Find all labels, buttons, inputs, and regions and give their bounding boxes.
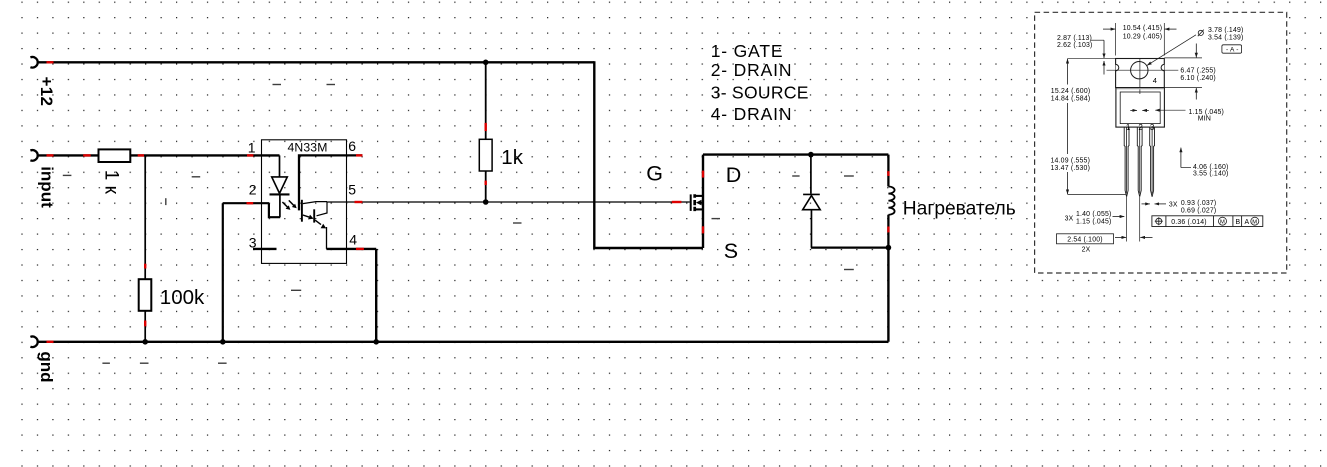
wire diode to heater bottom — [811, 246, 889, 248]
leg 1 — [1124, 127, 1129, 197]
inset texts — [1051, 25, 1258, 253]
svg-text:6.47 (.255): 6.47 (.255) — [1180, 67, 1216, 74]
svg-text:6: 6 — [348, 138, 356, 154]
opto T1 emitter — [303, 215, 309, 217]
wire 100k to gnd rail — [144, 311, 146, 342]
junction dot 1k gate — [483, 199, 489, 205]
tab hole — [1131, 61, 1148, 78]
dim 1.40 arrow — [1113, 216, 1125, 218]
TO220 body — [1116, 88, 1165, 128]
terminal input — [30, 150, 37, 161]
svg-text:100k: 100k — [160, 286, 205, 309]
resistor R2 1k — [479, 139, 492, 171]
opto LED cathode lead — [279, 194, 281, 217]
wire input to R1 — [37, 154, 99, 156]
hole crosshair — [1107, 59, 1179, 94]
svg-text:2: 2 — [1138, 123, 1143, 132]
svg-text:1.40 (.055): 1.40 (.055) — [1076, 211, 1112, 218]
junction dot heater bottom — [886, 245, 892, 251]
opto U1 4N33M box — [262, 140, 347, 264]
wire pin4 to gnd — [326, 249, 376, 342]
wire pin2 to gnd — [223, 203, 269, 342]
svg-text:+12: +12 — [37, 77, 56, 107]
inductor L1 heater top lead — [887, 155, 889, 187]
svg-text:4- DRAIN: 4- DRAIN — [711, 104, 793, 124]
svg-text:3: 3 — [1150, 123, 1155, 132]
svg-text:3- SOURCE: 3- SOURCE — [711, 83, 809, 103]
diode D1 triangle — [803, 196, 821, 210]
svg-text:- A -: - A - — [1226, 46, 1239, 53]
junction dot pin4 gnd — [373, 339, 379, 345]
svg-text:input: input — [38, 166, 57, 208]
svg-text:1 к: 1 к — [101, 170, 122, 195]
dim 1.15 lead width — [1130, 109, 1137, 111]
faint stray dashes — [63, 85, 854, 364]
tab notch left — [1116, 64, 1119, 70]
svg-text:13.47 (.530): 13.47 (.530) — [1051, 165, 1091, 172]
svg-text:2- DRAIN: 2- DRAIN — [711, 60, 793, 80]
wire top rail drop to source — [594, 61, 703, 248]
gdt position symbol — [1156, 218, 1162, 224]
opto light arrow 2 — [289, 200, 294, 205]
TO-220 inset drawing — [1035, 12, 1287, 273]
wire 1k bottom lead — [485, 171, 487, 202]
dim 4.06 leader — [1180, 148, 1182, 168]
svg-text:1: 1 — [1126, 123, 1131, 132]
dim 0.93 arrows — [1142, 203, 1150, 205]
svg-text:10.54 (.415): 10.54 (.415) — [1123, 25, 1163, 32]
dim 2.54 arrows — [1115, 236, 1126, 238]
svg-text:G: G — [646, 161, 663, 185]
opto LED cathode bar — [270, 193, 290, 195]
wire 1k top lead — [485, 62, 487, 139]
opto LED anode lead — [279, 155, 281, 177]
svg-text:2.62 (.103): 2.62 (.103) — [1057, 42, 1093, 49]
opto transistor T2 base bar — [313, 209, 315, 222]
tab notch right — [1161, 64, 1164, 70]
2.54 text box — [1057, 234, 1114, 244]
M circle 1 — [1219, 217, 1227, 225]
wire +12 top rail — [37, 61, 595, 63]
wire opto pin2 internal step — [269, 203, 280, 217]
terminal gnd — [30, 337, 37, 348]
junction dot 100k gnd — [142, 339, 148, 345]
svg-text:M: M — [1220, 220, 1225, 226]
wire input branch down — [144, 155, 146, 279]
opto transistor T1 base bar — [301, 200, 303, 222]
wire gnd rail — [37, 341, 889, 343]
right dim 6.47 — [1164, 58, 1202, 88]
junction dot pin2 gnd — [220, 339, 226, 345]
terminal +12 — [30, 57, 37, 68]
opto T2 emitter lead down — [326, 227, 328, 249]
feature control frame — [1152, 216, 1263, 227]
wire pin5 to gate — [327, 201, 690, 203]
svg-text:MIN: MIN — [1198, 116, 1211, 123]
svg-text:3.55 (.140): 3.55 (.140) — [1193, 171, 1229, 178]
svg-text:4N33M: 4N33M — [288, 140, 328, 154]
svg-text:3X: 3X — [1065, 215, 1074, 222]
svg-text:2: 2 — [249, 182, 257, 198]
junction dot diode drain rail — [808, 152, 814, 158]
svg-text:3.54 (.139): 3.54 (.139) — [1208, 34, 1244, 41]
svg-text:1.15 (.045): 1.15 (.045) — [1076, 218, 1112, 225]
svg-text:4: 4 — [1153, 76, 1157, 85]
diameter symbol — [1198, 30, 1203, 35]
svg-text:D: D — [726, 163, 742, 187]
mosfet body arrow — [696, 200, 702, 206]
svg-text:14.09 (.555): 14.09 (.555) — [1051, 158, 1091, 165]
opto pin6 lead — [299, 154, 362, 210]
mosfet source stub — [696, 208, 703, 210]
svg-text:gnd: gnd — [37, 351, 56, 382]
hole leader diagonal — [1147, 35, 1196, 66]
svg-text:M: M — [1252, 220, 1257, 226]
svg-text:B: B — [1236, 219, 1241, 226]
svg-text:1: 1 — [248, 140, 256, 156]
svg-text:2X: 2X — [1082, 247, 1091, 254]
svg-text:1- GATE: 1- GATE — [711, 41, 784, 61]
svg-text:0.69 (.027): 0.69 (.027) — [1181, 207, 1217, 214]
mosfet channel segments — [693, 194, 696, 211]
dim 2.87 leader — [1091, 39, 1104, 41]
opto T2 emitter — [315, 220, 321, 224]
svg-text:15.24 (.600): 15.24 (.600) — [1051, 88, 1091, 95]
svg-text:0.36 (.014): 0.36 (.014) — [1171, 219, 1207, 226]
svg-text:4: 4 — [349, 232, 357, 248]
leg extension lines — [1127, 197, 1140, 242]
leg 3 — [1150, 127, 1155, 197]
svg-text:0.93 (.037): 0.93 (.037) — [1181, 200, 1217, 207]
svg-text:A: A — [1245, 219, 1250, 226]
left dim 15.24 / 14.09 — [1067, 59, 1069, 85]
svg-text:3X: 3X — [1169, 202, 1178, 209]
svg-text:2.87 (.113): 2.87 (.113) — [1057, 35, 1092, 42]
mosfet drain stub — [696, 195, 703, 197]
TO220 tab — [1116, 59, 1165, 88]
junction dot 1k top — [483, 60, 489, 66]
M circle 2 — [1251, 217, 1259, 225]
inset dashed border — [1035, 12, 1287, 273]
svg-text:1k: 1k — [501, 146, 523, 169]
wire heater bottom to gnd rail — [887, 248, 889, 342]
red connection marks — [47, 62, 889, 342]
diode D1 bottom lead — [810, 210, 812, 248]
datum A box — [1222, 45, 1242, 53]
top dim 10.54 — [1116, 23, 1165, 56]
leg 2 — [1137, 127, 1142, 197]
svg-text:10.29 (.405): 10.29 (.405) — [1123, 33, 1163, 40]
svg-text:3.78 (.149): 3.78 (.149) — [1208, 27, 1244, 34]
TO220 tab-body step shading — [1117, 88, 1164, 90]
svg-text:2.54 (.100): 2.54 (.100) — [1067, 236, 1103, 243]
inset white area — [1033, 5, 1288, 278]
resistor R3 100k — [139, 279, 152, 311]
svg-text:Нагреватель: Нагреватель — [903, 198, 1016, 219]
diode D1 top lead — [810, 155, 812, 194]
opto pin3 stub — [253, 248, 277, 250]
opto T1 collector — [303, 202, 327, 204]
mosfet Q1 gate bar — [690, 194, 692, 211]
diode D1 cathode bar — [803, 193, 820, 195]
wire drain rail — [703, 153, 888, 155]
svg-text:5: 5 — [348, 182, 356, 198]
mosfet drain-source vertical — [702, 155, 704, 248]
svg-text:S: S — [724, 239, 738, 263]
inductor L1 bottom lead — [887, 215, 889, 248]
svg-text:6.10 (.240): 6.10 (.240) — [1180, 75, 1216, 82]
resistor R1 1 к — [99, 149, 131, 162]
inductor L1 coil — [888, 187, 894, 215]
svg-text:14.84 (.584): 14.84 (.584) — [1051, 96, 1091, 103]
opto LED triangle — [272, 177, 288, 194]
opto light arrow 1 — [282, 202, 287, 207]
wire R1 to opto pin1 — [130, 154, 279, 156]
opto T2 collector — [317, 202, 328, 216]
